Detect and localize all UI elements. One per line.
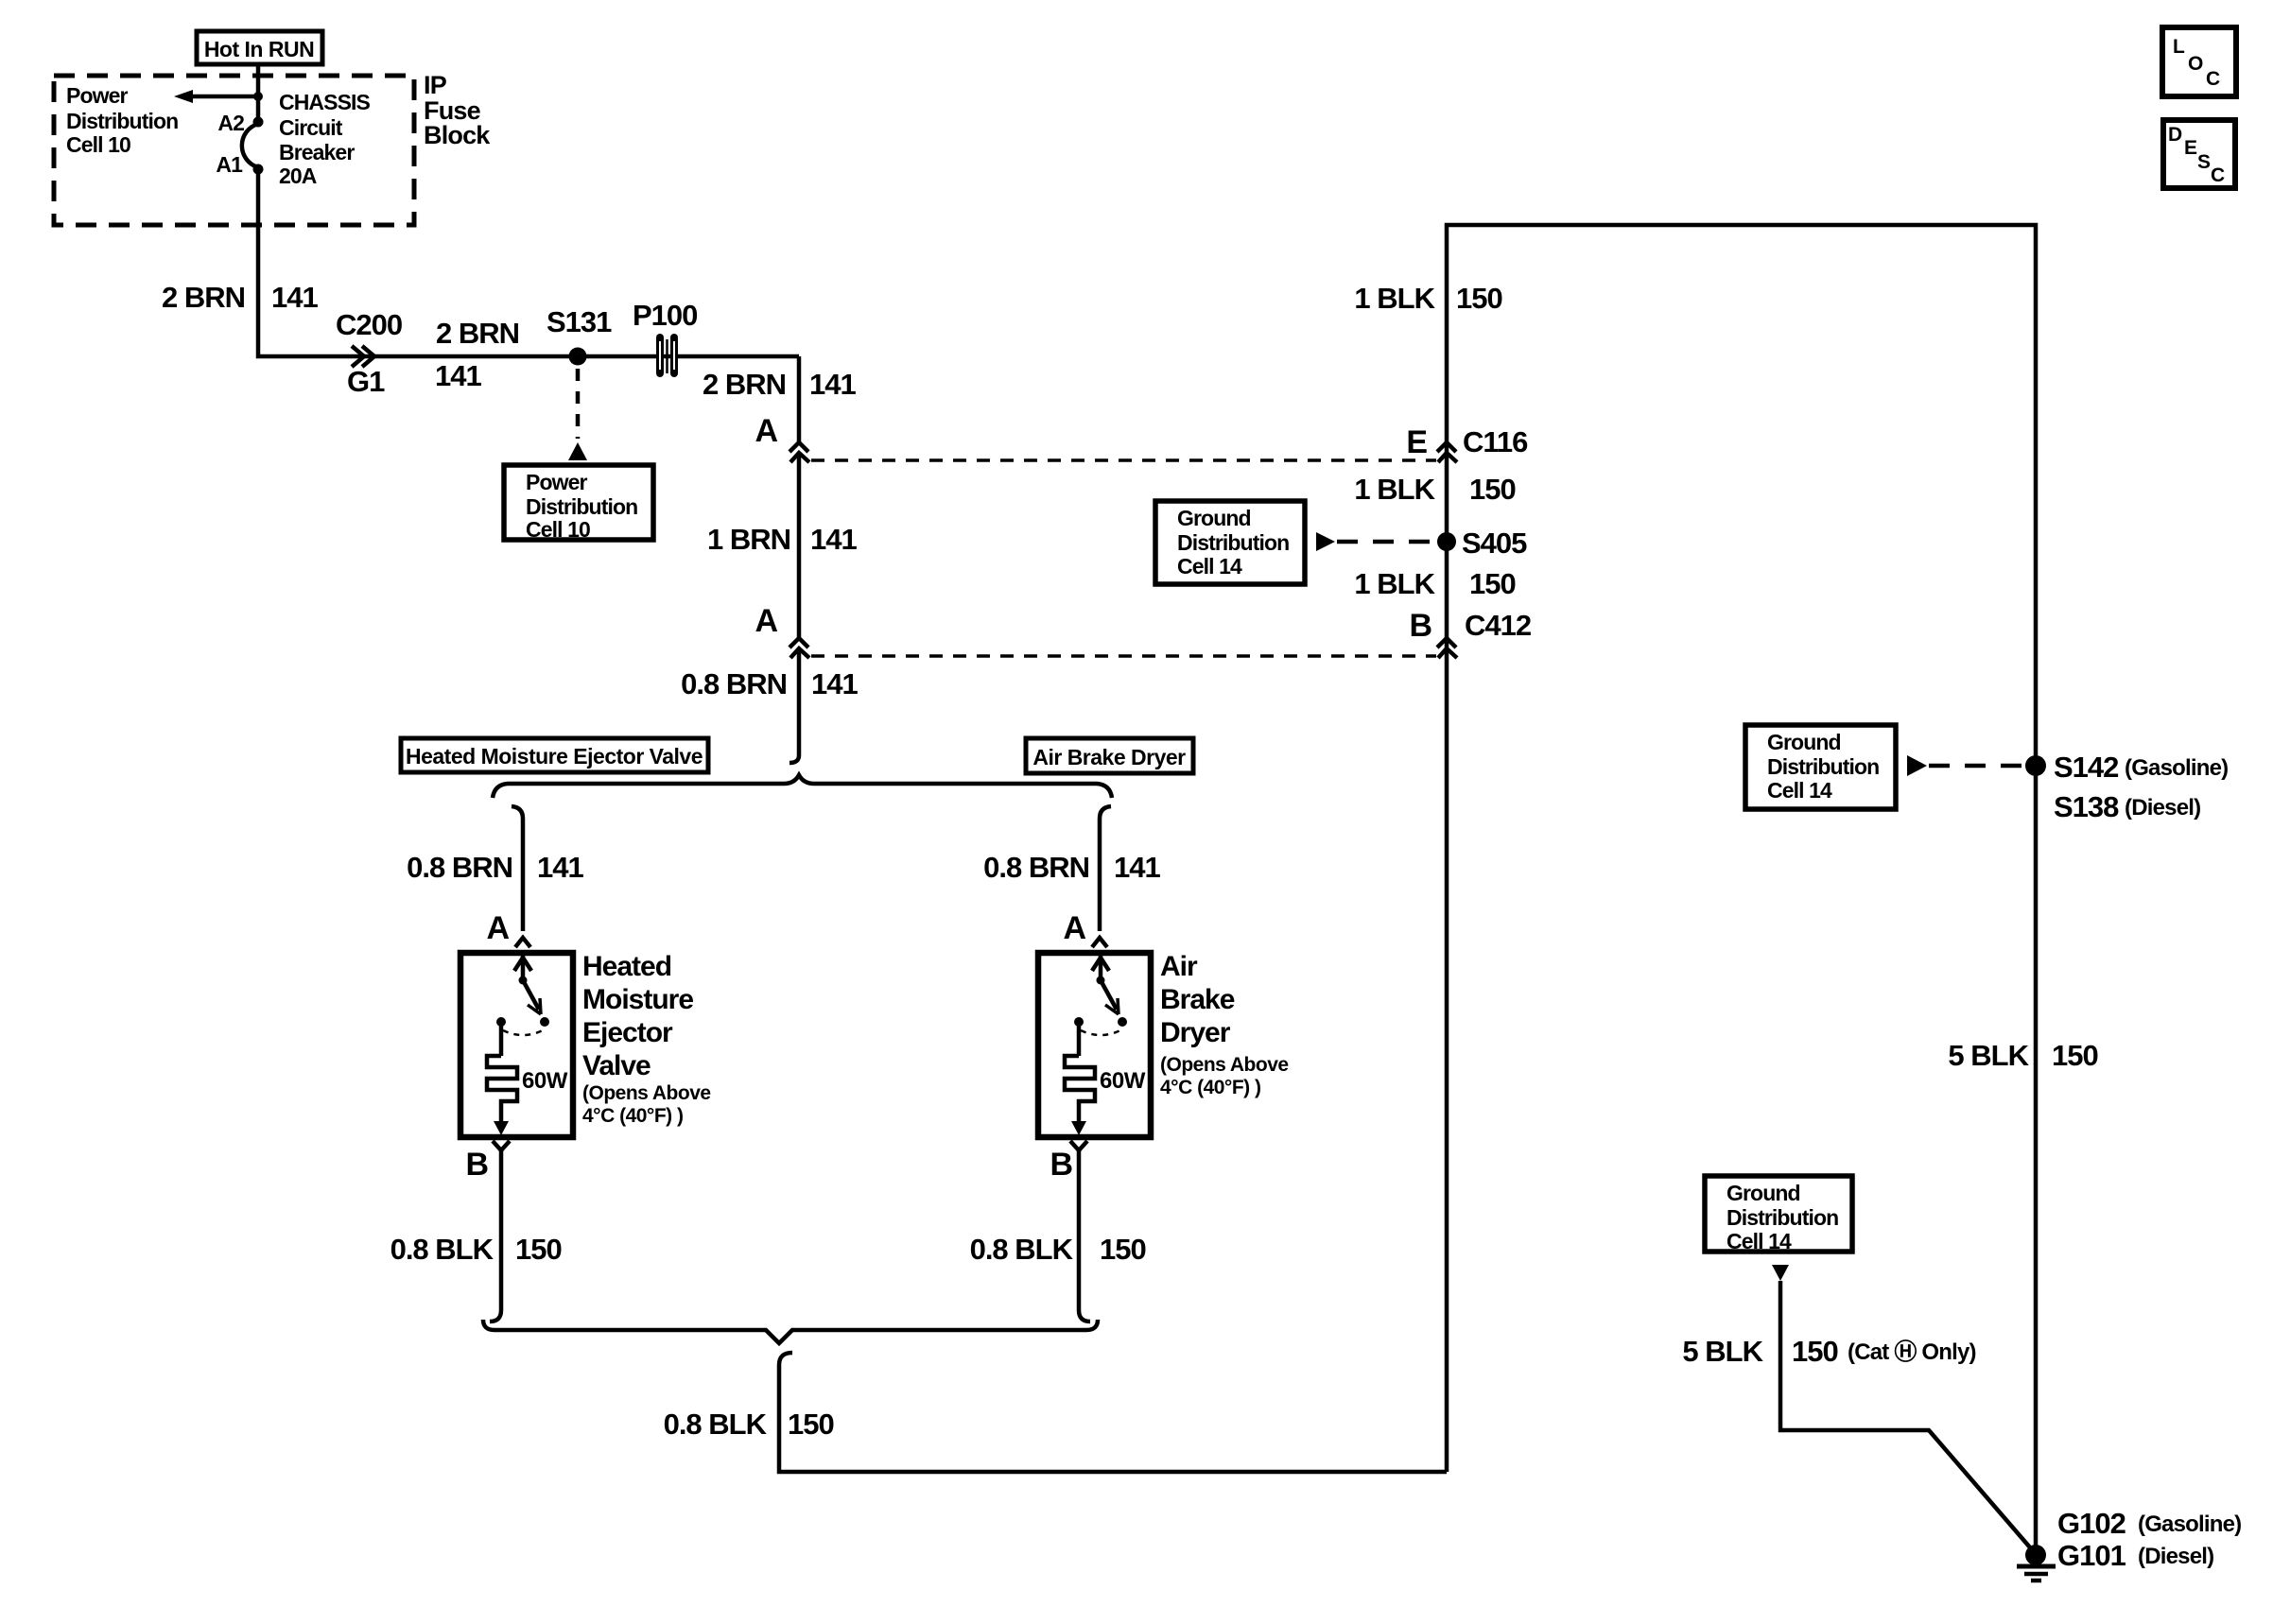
circuit breaker CHASSIS 20A <box>242 117 264 175</box>
wire label 1 BRN 141 <box>707 523 857 556</box>
wire: ground loop (left bus up, across top, right bus down) <box>1447 225 2036 1555</box>
svg-text:C412: C412 <box>1465 609 1531 642</box>
reference link to S142 <box>1907 755 2027 776</box>
svg-text:Cell 10: Cell 10 <box>526 517 590 542</box>
svg-text:A: A <box>755 603 777 639</box>
reference box: Ground Distribution Cell 14 (S142) <box>1745 725 1896 809</box>
svg-text:G1: G1 <box>347 365 385 398</box>
svg-text:Ejector: Ejector <box>582 1017 673 1048</box>
wire label 5 BLK 150 <box>1948 1039 2097 1072</box>
svg-text:150: 150 <box>515 1233 562 1266</box>
splice S131 <box>547 305 612 366</box>
merge brace: two branches join <box>483 1310 1098 1365</box>
wire label 2 BRN 141 (after C200) <box>435 317 519 392</box>
svg-text:S405: S405 <box>1462 527 1527 560</box>
wire: valve B down <box>499 1150 504 1310</box>
svg-text:141: 141 <box>1114 851 1160 884</box>
connector half at valve pin B <box>493 1141 510 1150</box>
reference link to S405 <box>1316 532 1433 551</box>
svg-text:Heated: Heated <box>582 951 671 982</box>
label box: Heated Moisture Ejector Valve <box>401 738 708 772</box>
svg-text:Cell 14: Cell 14 <box>1767 778 1832 803</box>
svg-text:S: S <box>2197 151 2211 173</box>
svg-text:Cell 14: Cell 14 <box>1726 1229 1792 1253</box>
svg-text:2 BRN: 2 BRN <box>436 317 519 350</box>
splice S142/S138 <box>2025 751 2228 823</box>
svg-text:0.8 BLK: 0.8 BLK <box>390 1233 495 1266</box>
dashed link C116 <box>811 458 1436 462</box>
reference box: Ground Distribution Cell 14 (S405) <box>1155 501 1305 584</box>
wire label 2 BRN 141 (to C116) <box>703 368 856 401</box>
svg-text:Distribution: Distribution <box>526 494 637 519</box>
wire: down to C116 <box>797 356 802 441</box>
svg-text:Ground: Ground <box>1767 730 1841 754</box>
svg-text:141: 141 <box>435 359 481 392</box>
label box: Hot In RUN <box>197 31 322 64</box>
svg-text:Air: Air <box>1160 951 1198 982</box>
svg-text:150: 150 <box>1100 1233 1146 1266</box>
svg-text:E: E <box>1406 424 1427 460</box>
svg-text:A1: A1 <box>216 152 243 177</box>
svg-text:5 BLK: 5 BLK <box>1948 1039 2029 1072</box>
wire label 1 BLK 150 (below S405) <box>1354 567 1515 600</box>
wire: arrow to other circuits <box>174 90 258 103</box>
svg-text:C116: C116 <box>1463 425 1528 458</box>
wire: merged ground lead <box>779 1365 1447 1472</box>
splice S405 <box>1437 527 1527 560</box>
reference link: S131 to Power Distribution <box>568 369 587 460</box>
svg-text:5 BLK: 5 BLK <box>1682 1335 1763 1368</box>
svg-text:D: D <box>2168 124 2182 146</box>
svg-text:20A: 20A <box>279 164 317 188</box>
svg-text:G101: G101 <box>2057 1539 2126 1572</box>
svg-text:A: A <box>486 910 509 946</box>
svg-text:(Gasoline): (Gasoline) <box>2125 755 2228 781</box>
svg-text:150: 150 <box>1792 1335 1838 1368</box>
svg-text:(Opens Above: (Opens Above <box>582 1082 711 1104</box>
connector half at valve pin A <box>515 938 530 947</box>
wire label 0.8 BLK 150 (merged) <box>664 1408 834 1441</box>
svg-text:Ground: Ground <box>1177 506 1251 530</box>
reference box: Power Distribution Cell 10 <box>504 465 653 542</box>
svg-text:B: B <box>1409 608 1431 644</box>
wire label 5 BLK 150 (Cat Only) <box>1682 1335 1975 1368</box>
connector C200 pass-through symbol <box>352 346 374 367</box>
wire: left branch hook and drop <box>512 806 523 931</box>
svg-text:60W: 60W <box>522 1068 568 1094</box>
wire: C412 down to split <box>789 650 799 763</box>
svg-text:Circuit: Circuit <box>279 115 343 140</box>
svg-text:(Gasoline): (Gasoline) <box>2138 1512 2241 1537</box>
wire: Hot In RUN feed into breaker <box>256 64 261 122</box>
IP Fuse Block dashed outline <box>54 76 414 225</box>
svg-text:Brake: Brake <box>1160 984 1235 1015</box>
svg-text:A: A <box>1063 910 1085 946</box>
wire label 0.8 BLK 150 (dryer) <box>970 1233 1146 1266</box>
wire label 0.8 BRN 141 (left branch) <box>407 851 583 884</box>
svg-text:Air Brake Dryer: Air Brake Dryer <box>1032 745 1186 769</box>
in-line connector C116 (left half) <box>789 442 809 462</box>
svg-text:(Cat Ⓗ Only): (Cat Ⓗ Only) <box>1848 1339 1976 1365</box>
svg-text:1 BLK: 1 BLK <box>1354 282 1435 315</box>
splice brace: feed splits to two branches <box>493 775 1112 798</box>
svg-text:B: B <box>1050 1147 1072 1183</box>
svg-text:141: 141 <box>811 667 858 700</box>
label: CHASSIS Circuit Breaker 20A <box>279 90 371 188</box>
svg-text:0.8 BRN: 0.8 BRN <box>407 851 512 884</box>
svg-text:(Diesel): (Diesel) <box>2125 795 2200 821</box>
svg-text:Distribution: Distribution <box>1767 754 1879 779</box>
wire label 0.8 BLK 150 (valve) <box>390 1233 562 1266</box>
svg-text:Block: Block <box>424 121 491 149</box>
svg-text:141: 141 <box>809 368 856 401</box>
svg-text:(Diesel): (Diesel) <box>2138 1544 2213 1569</box>
svg-text:Distribution: Distribution <box>1177 530 1289 555</box>
label box: Air Brake Dryer <box>1026 738 1193 773</box>
component box: Air Brake Dryer <box>1038 953 1151 1137</box>
svg-text:S138: S138 <box>2054 790 2119 823</box>
wire: dryer B down <box>1077 1150 1082 1310</box>
svg-text:4°C (40°F) ): 4°C (40°F) ) <box>582 1105 683 1127</box>
wire: breaker A1 down and right to S131 and P100 <box>258 169 799 356</box>
label: G101 (Diesel) <box>2057 1539 2213 1572</box>
svg-text:1 BLK: 1 BLK <box>1354 473 1435 506</box>
svg-text:G102: G102 <box>2057 1507 2126 1540</box>
connector half at dryer pin A <box>1092 938 1107 947</box>
label: Air Brake Dryer (component) <box>1160 951 1289 1098</box>
svg-text:150: 150 <box>1456 282 1502 315</box>
svg-text:C200: C200 <box>336 308 402 341</box>
svg-text:CHASSIS: CHASSIS <box>279 90 371 114</box>
label: IP Fuse Block <box>424 71 491 149</box>
wire: right branch hook and drop <box>1100 806 1111 931</box>
LOC corner box <box>2162 27 2236 96</box>
svg-text:0.8 BRN: 0.8 BRN <box>983 851 1089 884</box>
svg-text:B: B <box>465 1147 488 1183</box>
svg-text:Ground: Ground <box>1726 1181 1800 1205</box>
svg-text:C: C <box>2206 68 2220 90</box>
svg-text:O: O <box>2188 53 2203 75</box>
reference arrow from bottom cell 14 <box>1772 1265 1789 1281</box>
svg-text:60W: 60W <box>1100 1068 1146 1094</box>
reference box: Ground Distribution Cell 14 (bottom) <box>1705 1176 1852 1253</box>
wire label 0.8 BRN 141 (right branch) <box>983 851 1160 884</box>
svg-text:P100: P100 <box>633 299 697 332</box>
wire label 1 BLK 150 (above S405) <box>1354 473 1515 506</box>
label: Heated Moisture Ejector Valve (component) <box>582 951 711 1127</box>
svg-text:0.8 BLK: 0.8 BLK <box>970 1233 1074 1266</box>
svg-text:141: 141 <box>537 851 583 884</box>
wire: Cat only ground lead <box>1780 1281 2036 1554</box>
svg-text:2 BRN: 2 BRN <box>703 368 786 401</box>
svg-text:Distribution: Distribution <box>66 109 178 133</box>
DESC corner box <box>2163 120 2235 188</box>
svg-text:Dryer: Dryer <box>1160 1017 1231 1048</box>
svg-text:A: A <box>755 413 777 449</box>
in-line grommet P100 <box>633 299 697 377</box>
in-line connector C412 (right half) <box>1437 638 1457 658</box>
svg-text:0.8 BLK: 0.8 BLK <box>664 1408 768 1441</box>
wire: C116 to C412 <box>797 455 802 637</box>
svg-text:S131: S131 <box>547 305 612 338</box>
svg-text:150: 150 <box>1469 567 1516 600</box>
dashed link C412 <box>811 654 1436 658</box>
svg-text:C: C <box>2211 164 2225 186</box>
svg-text:1 BLK: 1 BLK <box>1354 567 1435 600</box>
label: connector C200 / G1 <box>336 308 402 398</box>
node: feed junction <box>253 92 263 101</box>
connector half at dryer pin B <box>1070 1141 1087 1150</box>
svg-text:4°C (40°F) ): 4°C (40°F) ) <box>1160 1077 1260 1098</box>
svg-text:Heated Moisture Ejector Valve: Heated Moisture Ejector Valve <box>406 744 703 769</box>
svg-text:Distribution: Distribution <box>1726 1205 1838 1230</box>
svg-text:A2: A2 <box>217 111 244 135</box>
svg-text:0.8 BRN: 0.8 BRN <box>681 667 787 700</box>
svg-text:Hot In RUN: Hot In RUN <box>204 37 314 61</box>
svg-text:Power: Power <box>526 470 587 494</box>
svg-text:141: 141 <box>810 523 857 556</box>
svg-text:Valve: Valve <box>582 1050 651 1081</box>
in-line connector C116 (right half) <box>1437 442 1457 462</box>
svg-text:Moisture: Moisture <box>582 984 693 1015</box>
svg-text:E: E <box>2184 137 2197 159</box>
label: Power Distribution Cell 10 (in fuse block) <box>66 83 178 157</box>
svg-text:Cell 10: Cell 10 <box>66 132 130 157</box>
svg-text:S142: S142 <box>2054 751 2118 784</box>
wire label 0.8 BRN 141 (above split) <box>681 667 858 700</box>
svg-text:150: 150 <box>1469 473 1516 506</box>
svg-text:L: L <box>2173 36 2185 58</box>
in-line connector C412 (left half) <box>789 638 809 658</box>
ground node G102/G101 <box>2017 1545 2056 1581</box>
label: G102 (Gasoline) <box>2057 1507 2241 1540</box>
wire label 1 BLK 150 (top) <box>1354 282 1501 315</box>
svg-text:150: 150 <box>788 1408 834 1441</box>
component box: Heated Moisture Ejector Valve <box>460 953 573 1137</box>
svg-text:Breaker: Breaker <box>279 140 355 164</box>
svg-text:(Opens Above: (Opens Above <box>1160 1054 1289 1076</box>
svg-text:150: 150 <box>2052 1039 2098 1072</box>
svg-text:2 BRN: 2 BRN <box>162 281 245 314</box>
svg-text:Cell 14: Cell 14 <box>1177 554 1242 579</box>
svg-text:141: 141 <box>271 281 318 314</box>
svg-text:1 BRN: 1 BRN <box>707 523 790 556</box>
svg-text:Power: Power <box>66 83 128 108</box>
svg-text:IP: IP <box>424 71 447 99</box>
wire label 2 BRN 141 (breaker output) <box>162 281 318 314</box>
